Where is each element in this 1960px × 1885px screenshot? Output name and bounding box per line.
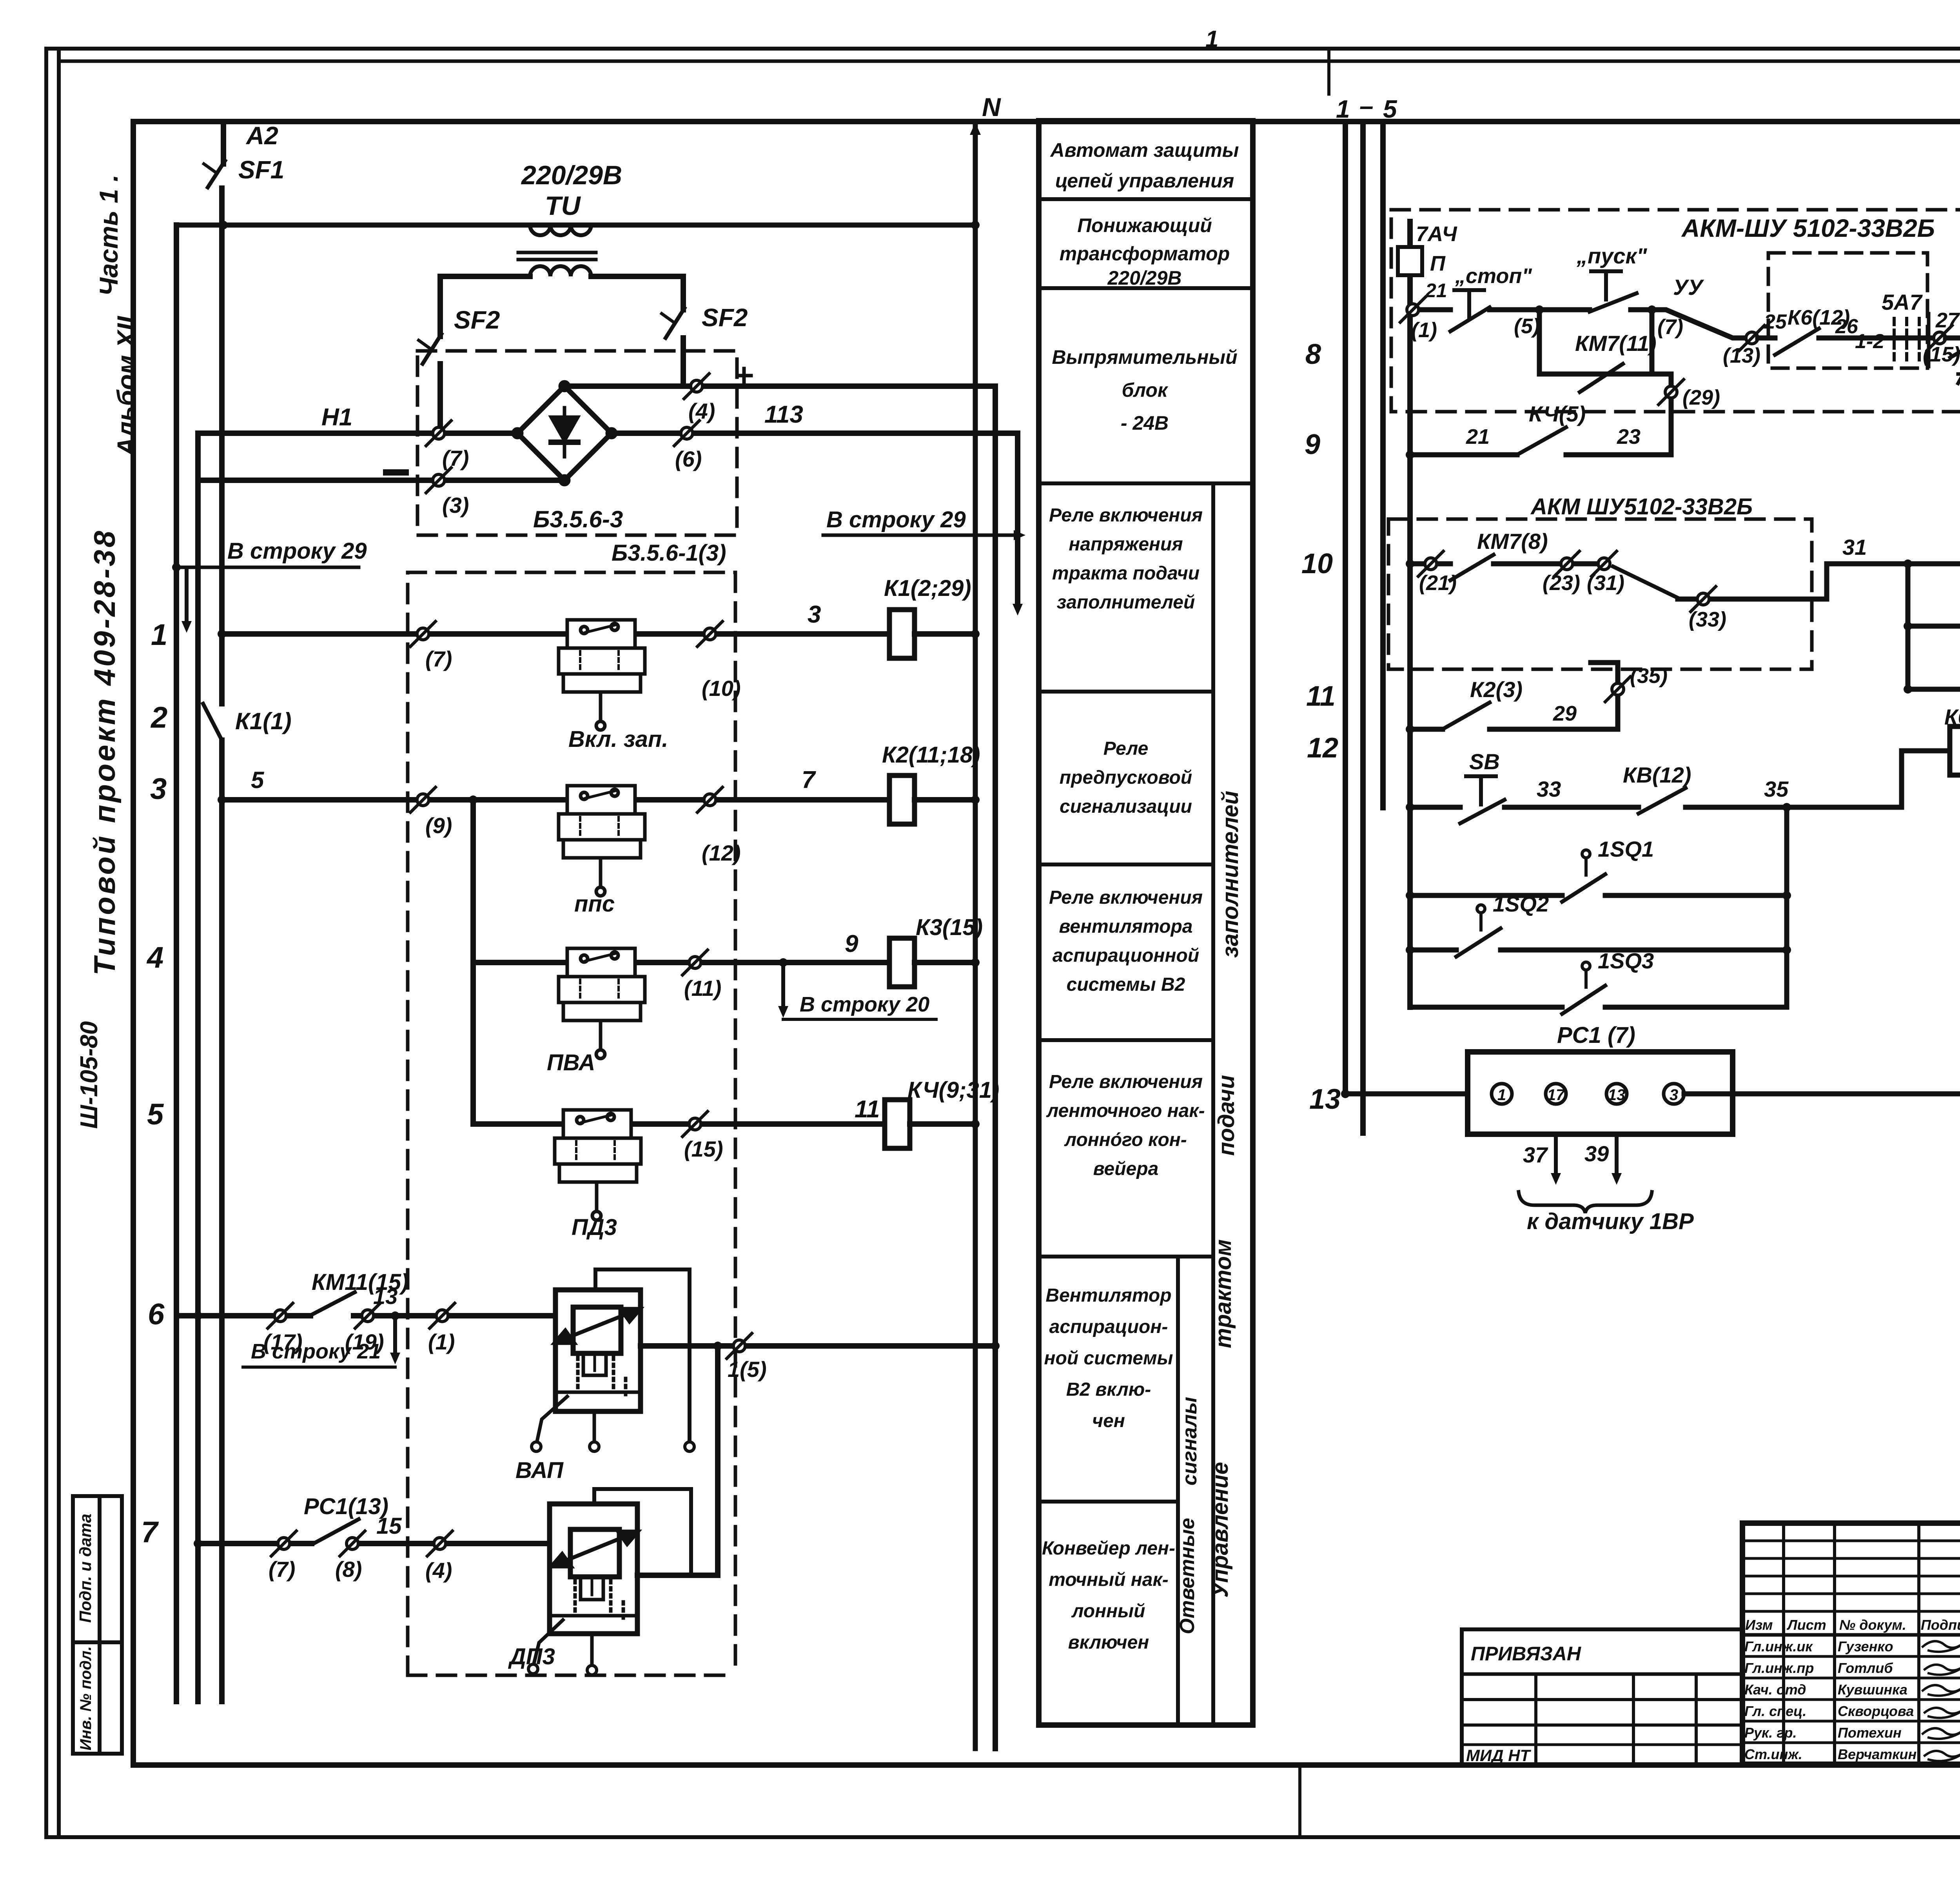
wire row1 to N <box>915 631 975 637</box>
button стоп (NC) <box>1454 290 1484 318</box>
svg-text:(23): (23) <box>1543 571 1580 595</box>
module ПД3 <box>555 1110 641 1220</box>
svg-text:(7): (7) <box>1657 315 1683 339</box>
svg-text:лонный: лонный <box>1071 1601 1145 1622</box>
fold mark bottom <box>1298 1765 1301 1837</box>
svg-text:№ докум.: № докум. <box>1839 1617 1906 1633</box>
svg-text:предпусковой: предпусковой <box>1060 767 1192 788</box>
svg-text:33: 33 <box>1537 777 1561 801</box>
contact (17) row6 <box>268 1303 293 1328</box>
diode inside bridge <box>551 408 578 457</box>
wire row 8 <box>1406 305 1414 314</box>
inner left border line <box>57 49 61 1837</box>
svg-text:5: 5 <box>147 1098 164 1131</box>
wire bridge top to plus <box>564 383 995 389</box>
svg-text:РС1(13): РС1(13) <box>304 1494 388 1519</box>
svg-text:КВ(12): КВ(12) <box>1623 763 1691 787</box>
svg-text:17: 17 <box>1547 1086 1565 1104</box>
wire ВАП output <box>641 1343 995 1349</box>
wire ДП3 output <box>637 1573 718 1578</box>
contact (9) row3 <box>410 787 436 812</box>
contact (7) row1 <box>410 621 436 646</box>
contact K1(1) on bus <box>203 704 222 740</box>
svg-text:(33): (33) <box>1689 608 1726 631</box>
node feeder junction <box>469 795 477 804</box>
pin 3 <box>1664 1084 1684 1104</box>
svg-text:сигнализации: сигнализации <box>1060 796 1192 817</box>
svg-text:1: 1 <box>1497 1086 1506 1104</box>
relay coil К6 <box>1950 726 1960 775</box>
lamp HA2 <box>1908 624 1960 629</box>
lamp HA1 <box>1908 561 1960 567</box>
svg-text:9: 9 <box>1305 429 1320 460</box>
svg-text:6: 6 <box>148 1298 165 1331</box>
svg-text:(3): (3) <box>442 493 469 518</box>
contact (19) row6 <box>355 1303 380 1328</box>
svg-text:11: 11 <box>1306 681 1336 712</box>
svg-text:блок: блок <box>1122 379 1169 401</box>
svg-text:1: 1 <box>151 618 167 652</box>
svg-text:Ст.инж.: Ст.инж. <box>1744 1746 1802 1762</box>
contact (15) row5 <box>682 1111 708 1137</box>
svg-text:вентилятора: вентилятора <box>1059 916 1193 937</box>
breaker SF2 right <box>666 308 684 338</box>
svg-text:Типовой проект 409-28-38: Типовой проект 409-28-38 <box>88 528 122 975</box>
svg-text:1(5): 1(5) <box>728 1357 767 1382</box>
svg-text:подачи: подачи <box>1214 1075 1239 1156</box>
wire secondary right <box>591 276 683 310</box>
svg-text:ВАП: ВАП <box>515 1458 564 1483</box>
svg-text:1SQ1: 1SQ1 <box>1598 837 1654 861</box>
svg-text:к датчику 1ВР: к датчику 1ВР <box>1527 1209 1694 1234</box>
svg-text:7АЧ: 7АЧ <box>1416 222 1457 246</box>
text box: Понижающий трансформатор 220/29В <box>1060 214 1230 289</box>
dashed box B3.5.6-1(3) <box>408 572 735 1675</box>
svg-text:SF2: SF2 <box>702 303 748 332</box>
svg-text:15: 15 <box>376 1513 402 1539</box>
contact (7) row7 <box>271 1531 296 1556</box>
svg-text:УУ: УУ <box>1673 275 1704 300</box>
svg-text:КМ7(8): КМ7(8) <box>1477 529 1548 554</box>
wire row 11 К2(3) <box>1406 725 1414 734</box>
module ППС <box>559 786 645 896</box>
svg-text:12: 12 <box>1307 732 1338 764</box>
transformer core <box>518 251 596 254</box>
svg-text:(11): (11) <box>684 976 721 1001</box>
arrow into row 1 <box>185 569 189 623</box>
svg-text:- 24В: - 24В <box>1121 412 1169 434</box>
minus sign <box>386 469 406 476</box>
dashed box AKM ШУ5102-33В2Б (second) <box>1388 519 1812 669</box>
svg-text:вейера: вейера <box>1093 1159 1159 1179</box>
svg-text:В строку 29: В строку 29 <box>826 507 966 532</box>
svg-text:31: 31 <box>1842 535 1867 559</box>
svg-text:В строку 20: В строку 20 <box>800 993 929 1016</box>
svg-text:13: 13 <box>1608 1086 1626 1104</box>
svg-text:(7): (7) <box>425 646 452 671</box>
svg-text:SF2: SF2 <box>454 306 500 334</box>
wire row 6 <box>176 1313 310 1318</box>
svg-text:7: 7 <box>141 1516 159 1549</box>
svg-text:аспирационной: аспирационной <box>1053 945 1199 966</box>
svg-text:25: 25 <box>1764 311 1787 333</box>
svg-text:Готлиб: Готлиб <box>1838 1660 1893 1676</box>
module ПВА <box>559 948 645 1059</box>
node drop to row7 module <box>713 1342 722 1350</box>
margin stamp box (Подп. и дата / Инв. № подл.) <box>73 1496 122 1754</box>
node row6 branch <box>391 1311 399 1320</box>
fold mark top <box>1327 49 1330 94</box>
branch down for HA2/HA3 <box>1906 564 1911 689</box>
svg-text:37: 37 <box>1523 1142 1548 1167</box>
supply line 2 <box>1360 125 1366 1133</box>
svg-text:трактом: трактом <box>1210 1239 1236 1348</box>
svg-text:Н1: Н1 <box>321 404 352 431</box>
text box: Вентилятор аспирационной системы В2 включен <box>1044 1285 1173 1431</box>
svg-text:(15): (15) <box>684 1137 723 1161</box>
svg-text:ПВА: ПВА <box>547 1050 595 1075</box>
svg-text:5: 5 <box>1383 95 1397 123</box>
text box: Конвейер ленточный наклонный включен <box>1042 1538 1175 1653</box>
svg-text:(10): (10) <box>702 676 741 701</box>
limit switch 1SQ1 <box>1406 891 1414 900</box>
text box: Реле включения ленточного наклонного конвейера <box>1046 1071 1205 1179</box>
svg-text:8: 8 <box>1305 339 1321 370</box>
wire row 5 <box>473 1121 885 1127</box>
text box: Реле включения вентилятора аспирационной системы В2 <box>1049 887 1203 995</box>
svg-text:напряжения: напряжения <box>1069 534 1183 555</box>
speed relay PC1 <box>1468 1052 1733 1134</box>
lead A2 <box>221 122 226 164</box>
feeder drop with fuse <box>1407 222 1413 1007</box>
svg-text:Подпись: Подпись <box>1921 1617 1960 1633</box>
svg-text:включен: включен <box>1068 1632 1149 1653</box>
pin 1 <box>1492 1084 1512 1104</box>
svg-text:(9): (9) <box>425 813 452 838</box>
svg-text:ленточного нак-: ленточного нак- <box>1046 1100 1205 1121</box>
svg-text:Вентилятор: Вентилятор <box>1045 1285 1171 1306</box>
bus V3 (113) with arrow <box>1015 433 1020 606</box>
contact (7) on H1 <box>426 421 451 446</box>
wire row 1 <box>222 631 889 637</box>
svg-text:Реле включения: Реле включения <box>1049 505 1203 526</box>
wire row 12 SB <box>1406 803 1414 812</box>
svg-text:5: 5 <box>251 767 265 793</box>
svg-text:точный нак-: точный нак- <box>1049 1569 1169 1590</box>
dot SF1/top bus junction <box>219 221 228 229</box>
breaker SF1 <box>208 161 225 187</box>
svg-text:Автомат защиты: Автомат защиты <box>1050 139 1239 161</box>
svg-text:Ответные: Ответные <box>1176 1518 1199 1634</box>
contact КМ7(8) blade <box>1450 555 1494 580</box>
svg-text:ТU: ТU <box>545 191 581 221</box>
svg-text:Инв. № подл.: Инв. № подл. <box>77 1646 94 1751</box>
contact (12) row3 <box>697 787 722 812</box>
rectifier bridge VD <box>514 383 615 484</box>
breaker SF2 left <box>423 334 441 364</box>
svg-text:3: 3 <box>808 601 821 628</box>
contact (4) <box>684 374 709 399</box>
link to К6 coil <box>1902 751 1950 807</box>
svg-text:Реле: Реле <box>1103 738 1149 759</box>
svg-text:ПРИВЯЗАН: ПРИВЯЗАН <box>1471 1643 1581 1665</box>
contact (6) <box>674 421 699 446</box>
supply line 1 <box>1343 125 1348 1094</box>
svg-text:11: 11 <box>855 1096 880 1123</box>
svg-text:К1(1): К1(1) <box>235 708 292 734</box>
svg-text:Гл. спец.: Гл. спец. <box>1744 1703 1806 1719</box>
svg-text:29: 29 <box>1553 702 1577 725</box>
svg-text:9: 9 <box>845 930 858 957</box>
bus V2 (plus) <box>993 386 998 1749</box>
svg-text:(6): (6) <box>675 447 702 471</box>
svg-text:39: 39 <box>1584 1141 1609 1166</box>
wire pc1 out <box>1684 1091 1960 1097</box>
svg-text:23: 23 <box>1617 425 1641 449</box>
svg-text:Реле включения: Реле включения <box>1049 1071 1203 1092</box>
contact (8) row7 <box>340 1531 365 1556</box>
button пуск (NO) <box>1539 307 1590 312</box>
relay coil K3 <box>889 938 915 987</box>
text box: Выпрямительный блок -24В <box>1052 346 1237 434</box>
svg-text:МИД НТ: МИД НТ <box>1466 1746 1532 1765</box>
module ДП3 (starter) <box>528 1489 691 1675</box>
svg-text:(4): (4) <box>425 1558 452 1583</box>
svg-text:„пуск": „пуск" <box>1576 243 1648 268</box>
svg-text:РС1 (7): РС1 (7) <box>1557 1022 1635 1048</box>
svg-text:Альбом ХII: Альбом ХII <box>112 316 141 457</box>
wire row 9 <box>1406 450 1414 459</box>
bus L3 (phase after SF1) <box>219 188 225 704</box>
transformer TU secondary <box>530 266 591 276</box>
text box: Реле включения напряжения тракта подачи заполнителей <box>1049 505 1203 613</box>
svg-text:Скворцова: Скворцова <box>1838 1703 1914 1719</box>
contact КЧ(5) <box>1517 427 1566 455</box>
svg-text:В строку 29: В строку 29 <box>227 538 367 564</box>
svg-text:Реле включения: Реле включения <box>1049 887 1203 908</box>
contact KM11(15) blade <box>310 1292 355 1316</box>
svg-text:SF1: SF1 <box>238 156 284 184</box>
inner dashed box <box>1768 253 1927 368</box>
svg-text:1: 1 <box>1205 26 1218 52</box>
relay coil K4 <box>885 1100 910 1148</box>
svg-text:4: 4 <box>146 941 163 974</box>
sensor leads 37/39 <box>1554 1134 1558 1176</box>
wire feeder down <box>470 800 476 1124</box>
svg-text:К6(8;12): К6(8;12) <box>1944 705 1960 729</box>
wire row 7 <box>198 1541 312 1546</box>
transformer TU primary <box>530 225 591 235</box>
svg-text:трансформатор: трансформатор <box>1060 243 1230 265</box>
svg-text:13: 13 <box>1309 1084 1341 1115</box>
relay coil K1 <box>889 610 915 658</box>
contact (11) row4 <box>682 950 708 975</box>
svg-text:чен: чен <box>1092 1411 1125 1431</box>
dashed box B3.5.6-3 <box>417 351 737 535</box>
svg-text:(8): (8) <box>335 1557 362 1582</box>
svg-text:тракта подачи: тракта подачи <box>1052 563 1200 584</box>
svg-text:(29): (29) <box>1682 386 1720 409</box>
module ВАП (starter) <box>532 1269 694 1451</box>
svg-text:(1): (1) <box>1411 318 1437 342</box>
svg-text:Лист: Лист <box>1786 1617 1826 1633</box>
wire row 10 <box>1406 559 1414 568</box>
wire node7 to (13) <box>1652 310 1746 338</box>
svg-text:„стоп": „стоп" <box>1455 264 1532 288</box>
svg-text:ной системы: ной системы <box>1044 1348 1173 1369</box>
svg-text:1: 1 <box>1336 95 1350 123</box>
dashed box AKM-ШУ 5102-33В2Б (upper) <box>1391 210 1960 412</box>
fuse 7АЧ <box>1398 247 1422 275</box>
svg-text:К3(15): К3(15) <box>916 915 983 940</box>
svg-text:1SQ2: 1SQ2 <box>1493 892 1549 916</box>
svg-text:Потехин: Потехин <box>1838 1725 1902 1741</box>
wire minus row <box>198 478 564 483</box>
svg-text:заполнителей: заполнителей <box>1218 791 1243 958</box>
wire row 4 <box>473 960 889 965</box>
svg-text:Выпрямительный: Выпрямительный <box>1052 346 1237 368</box>
svg-text:Изм: Изм <box>1745 1617 1773 1633</box>
relay coil K2 <box>889 775 915 824</box>
contact 1(5) <box>727 1333 752 1358</box>
top bus wire <box>176 223 975 228</box>
wire SF2R down <box>681 338 686 386</box>
svg-text:цепей управления: цепей управления <box>1055 170 1234 192</box>
svg-text:(31): (31) <box>1587 571 1624 595</box>
contact KM7(11) self-hold <box>1539 310 1652 374</box>
revision table ПРИВЯЗАН <box>1462 1629 1742 1764</box>
wire secondary left <box>440 276 530 336</box>
svg-text:ПД3: ПД3 <box>572 1215 617 1240</box>
limit switch 1SQ2 <box>1406 946 1414 954</box>
svg-text:(35): (35) <box>1630 664 1668 688</box>
bus N vertical <box>973 122 978 1749</box>
svg-text:В строку 21: В строку 21 <box>251 1340 381 1363</box>
svg-text:лонно́го кон-: лонно́го кон- <box>1064 1130 1187 1150</box>
wire to KM7 coil <box>1945 336 1960 341</box>
svg-text:Конвейер лен-: Конвейер лен- <box>1042 1538 1175 1559</box>
svg-text:КЧ(5): КЧ(5) <box>1529 401 1586 426</box>
svg-text:(12): (12) <box>702 841 741 865</box>
svg-text:–: – <box>1359 92 1374 120</box>
svg-text:SВ: SВ <box>1469 749 1500 774</box>
svg-text:сигналы: сигналы <box>1178 1397 1201 1485</box>
node (7) <box>1648 305 1656 314</box>
wire 113 row <box>612 430 1018 436</box>
svg-text:П: П <box>1430 252 1446 275</box>
wire SF2L to H1 row <box>437 364 443 433</box>
svg-text:системы В2: системы В2 <box>1067 974 1185 995</box>
text box: Автомат защиты цепей управления <box>1050 139 1239 192</box>
svg-text:Вкл. зап.: Вкл. зап. <box>568 726 668 752</box>
svg-text:К2(11;18): К2(11;18) <box>882 742 980 768</box>
svg-text:(4): (4) <box>688 399 715 423</box>
limit switch 1SQ3 <box>1410 1005 1562 1010</box>
svg-text:3: 3 <box>1670 1086 1678 1104</box>
svg-text:Понижающий: Понижающий <box>1077 214 1212 236</box>
svg-text:(1): (1) <box>428 1329 455 1354</box>
lamp HA3 <box>1904 685 1912 694</box>
contact K6(12) <box>1758 336 1775 341</box>
wire row 13 <box>1341 1090 1350 1098</box>
inner top border line <box>59 60 1960 63</box>
node (5) <box>1535 305 1544 314</box>
svg-text:(13): (13) <box>1723 344 1760 367</box>
svg-text:Подп. и дата: Подп. и дата <box>76 1514 94 1623</box>
bus L1 <box>174 225 179 1702</box>
pin 13 <box>1606 1084 1627 1104</box>
text box: Реле предпусковой сигнализации <box>1060 738 1192 817</box>
supply line 3 <box>1380 125 1386 808</box>
blade to ground <box>1950 334 1960 358</box>
svg-text:заполнителей: заполнителей <box>1057 592 1195 613</box>
svg-text:АКМ-ШУ 5102-33В2Б: АКМ-ШУ 5102-33В2Б <box>1681 214 1935 242</box>
brace <box>1519 1192 1652 1213</box>
wire H1 row <box>198 430 517 436</box>
svg-text:(7): (7) <box>442 446 469 470</box>
bus L2 <box>195 433 201 1702</box>
svg-text:Кувшинка: Кувшинка <box>1838 1682 1907 1698</box>
svg-text:Гл.инж.ик: Гл.инж.ик <box>1744 1638 1813 1654</box>
svg-text:АКМ ШУ5102-33В2Б: АКМ ШУ5102-33В2Б <box>1530 494 1753 519</box>
svg-text:КЧ(9;31): КЧ(9;31) <box>907 1077 999 1103</box>
blade down to (33) <box>1613 567 1678 598</box>
svg-text:КМ7(11): КМ7(11) <box>1575 331 1657 356</box>
plus mark <box>737 369 751 383</box>
contact (4) row7 <box>427 1531 452 1556</box>
wire (29) branch <box>1652 374 1671 455</box>
svg-text:ппс: ппс <box>574 891 615 917</box>
svg-text:В2 вклю-: В2 вклю- <box>1066 1379 1151 1400</box>
contact PC1(13) blade <box>314 1519 359 1544</box>
svg-text:21: 21 <box>1425 280 1447 301</box>
contact (3) on minus row <box>426 468 451 493</box>
svg-text:220/29В: 220/29В <box>521 160 622 190</box>
svg-text:Рук. гр.: Рук. гр. <box>1744 1725 1797 1741</box>
svg-text:7: 7 <box>802 766 816 794</box>
svg-text:220/29В: 220/29В <box>1107 267 1181 289</box>
svg-text:(21): (21) <box>1419 571 1457 595</box>
svg-text:Управление: Управление <box>1207 1462 1233 1598</box>
node to line 20 <box>779 958 788 967</box>
svg-text:10: 10 <box>1301 548 1333 579</box>
svg-text:Верчаткин: Верчаткин <box>1838 1746 1916 1762</box>
svg-text:5А7: 5А7 <box>1882 290 1923 314</box>
svg-text:аспирацион-: аспирацион- <box>1049 1317 1168 1337</box>
svg-text:(5): (5) <box>1514 314 1540 338</box>
svg-text:Кач. отд: Кач. отд <box>1744 1682 1806 1698</box>
contact (15) <box>1927 325 1952 350</box>
contact (10) row1 <box>697 621 722 646</box>
svg-text:113: 113 <box>764 401 803 428</box>
svg-text:N: N <box>982 93 1001 122</box>
svg-text:3: 3 <box>150 772 167 806</box>
contact КВ(12) <box>1639 788 1686 814</box>
signatures scribbles <box>1923 1641 1960 1761</box>
module Вкл.зап. <box>559 620 645 730</box>
svg-text:Б3.5.6-1(3): Б3.5.6-1(3) <box>612 540 726 566</box>
wire row 3 <box>222 797 889 803</box>
svg-text:К1(2;29): К1(2;29) <box>884 576 971 601</box>
pin 17 <box>1546 1084 1566 1104</box>
contact (1) row6 <box>430 1303 455 1328</box>
svg-text:ДП3: ДП3 <box>508 1644 555 1669</box>
svg-text:Б3.5.6-3: Б3.5.6-3 <box>533 506 623 532</box>
svg-text:Гузенко: Гузенко <box>1838 1638 1893 1654</box>
svg-text:1-2: 1-2 <box>1855 330 1884 353</box>
svg-text:Гл.инж.пр: Гл.инж.пр <box>1744 1660 1814 1676</box>
signature table <box>1742 1523 1960 1764</box>
